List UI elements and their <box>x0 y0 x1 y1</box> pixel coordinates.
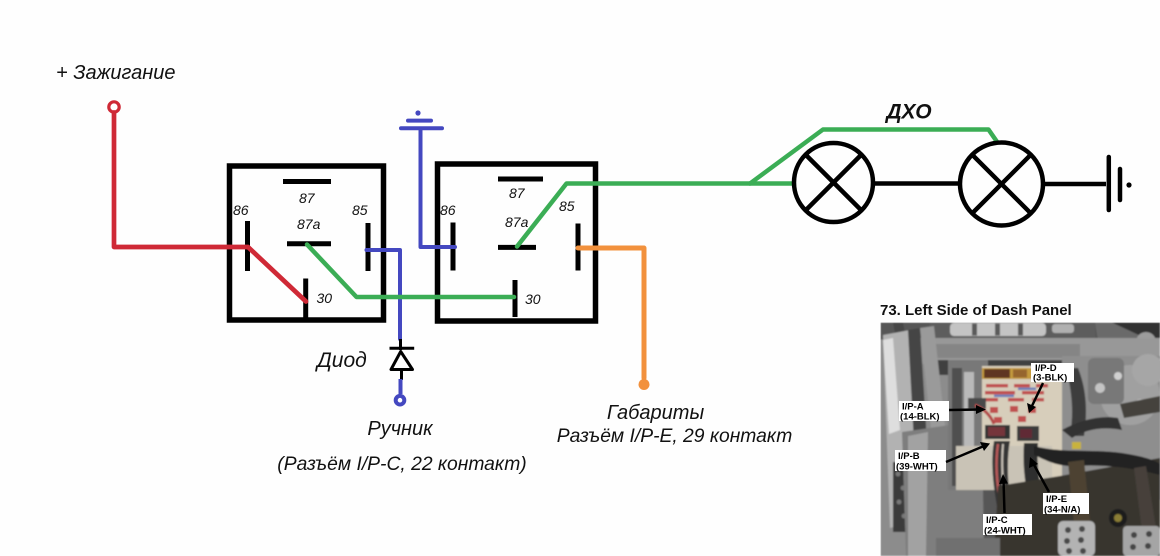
relay K1 body <box>230 166 384 320</box>
svg-text:87: 87 <box>509 185 526 201</box>
wire green: branch to lamp2 top <box>750 130 998 184</box>
ground right <box>1109 157 1132 210</box>
relay K1 pin 30 <box>303 279 308 319</box>
lamp L2 <box>960 143 1043 226</box>
svg-text:85: 85 <box>559 198 575 214</box>
wire black: lamp1 to lamp2 <box>874 181 961 186</box>
relay K1 pin 85 <box>366 223 371 271</box>
node: ignition terminal <box>109 102 119 112</box>
photo label I/P-D <box>1027 363 1074 413</box>
node: handbrake terminal <box>396 396 405 405</box>
svg-text:Разъём I/P-E, 29 контакт: Разъём I/P-E, 29 контакт <box>557 426 793 447</box>
svg-text:I/P-E: I/P-E <box>1046 494 1067 505</box>
photo label I/P-E <box>1029 457 1089 516</box>
svg-text:(24-WHT): (24-WHT) <box>984 526 1026 537</box>
svg-text:+ Зажигание: + Зажигание <box>56 62 176 84</box>
svg-text:(14-BLK): (14-BLK) <box>900 412 940 423</box>
photo label I/P-C <box>983 474 1032 537</box>
svg-text:30: 30 <box>317 290 333 306</box>
wire blue: top ground to relay2 86 <box>421 130 456 247</box>
svg-text:Габариты: Габариты <box>607 402 705 424</box>
svg-text:I/P-B: I/P-B <box>898 451 920 462</box>
svg-text:73. Left Side of Dash Panel: 73. Left Side of Dash Panel <box>880 302 1072 319</box>
svg-text:Диод: Диод <box>315 349 367 372</box>
svg-text:86: 86 <box>233 202 249 218</box>
svg-text:87: 87 <box>299 190 316 206</box>
svg-text:86: 86 <box>440 202 456 218</box>
relay K2 pin 87 <box>498 177 543 182</box>
wire red: ignition to relay1 pin30 <box>114 113 306 302</box>
photo label I/P-A <box>899 401 986 423</box>
svg-text:(34-N/A): (34-N/A) <box>1044 505 1080 516</box>
relay K1 pin 87a <box>287 241 331 246</box>
relay K2 body <box>438 164 596 321</box>
svg-text:Ручник: Ручник <box>367 418 434 440</box>
svg-text:85: 85 <box>352 202 368 218</box>
relay K2 pin 30 <box>513 280 518 317</box>
wire black: lamp2 to ground <box>1043 182 1106 187</box>
wire green: relay2 87a to lamp1 <box>517 184 794 247</box>
wire blue: relay1 85 to diode <box>367 250 401 339</box>
relay K1 pin 87 <box>283 179 331 184</box>
relay K2 pin 86 <box>451 223 456 271</box>
svg-text:ДХО: ДХО <box>884 101 931 124</box>
wire green: relay1 87a to relay2 30 <box>307 245 514 298</box>
lamp L1 <box>794 143 873 222</box>
wire orange: relay2 85 to parking lights <box>578 248 644 378</box>
relay K2 pin 87a <box>498 245 536 250</box>
svg-text:87a: 87a <box>505 214 529 230</box>
photo label I/P-B <box>895 442 990 473</box>
svg-text:87a: 87a <box>297 216 321 232</box>
node: parking lights terminal <box>639 379 650 390</box>
wire blue: diode to handbrake terminal <box>399 379 403 394</box>
svg-text:(Разъём I/P-C, 22 контакт): (Разъём I/P-C, 22 контакт) <box>277 454 526 475</box>
relay K1 pin 86 <box>245 221 250 271</box>
svg-text:(3-BLK): (3-BLK) <box>1033 373 1067 384</box>
diode D1 <box>390 339 415 380</box>
ground top (blue) <box>401 110 442 128</box>
svg-text:(39-WHT): (39-WHT) <box>896 462 938 473</box>
svg-text:30: 30 <box>525 291 541 307</box>
relay K2 pin 85 <box>576 224 581 271</box>
svg-text:I/P-C: I/P-C <box>986 515 1008 526</box>
